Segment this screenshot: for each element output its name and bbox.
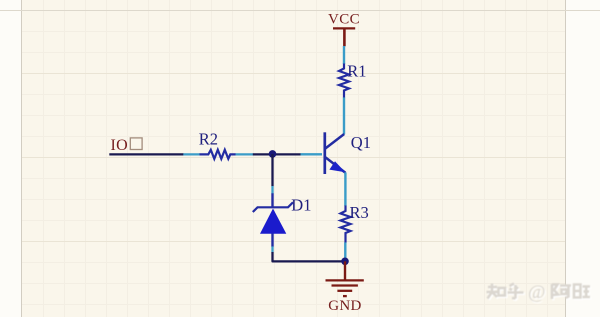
pin R2.1 bbox=[183, 153, 200, 155]
svg-text:D1: D1 bbox=[291, 195, 311, 214]
pin R1.1 bbox=[343, 46, 345, 64]
svg-text:R1: R1 bbox=[347, 62, 366, 81]
pin R3.2 bbox=[344, 242, 346, 258]
pin Q1 emitter bbox=[344, 172, 346, 205]
ground symbol GND bbox=[326, 261, 364, 296]
pin D1.2 bbox=[271, 246, 273, 252]
net label IO口 bbox=[111, 137, 143, 154]
resistor R2 bbox=[200, 150, 236, 159]
wire junction to D1 bbox=[271, 154, 273, 186]
svg-text:R2: R2 bbox=[199, 130, 218, 149]
svg-text:@: @ bbox=[528, 282, 546, 303]
watermark 知乎 @阿旺 bbox=[487, 282, 592, 304]
pin R2.2 bbox=[236, 153, 254, 155]
svg-text:GND: GND bbox=[328, 298, 361, 314]
pin D1.1 bbox=[271, 186, 273, 194]
svg-text:IO: IO bbox=[111, 137, 128, 154]
power symbol VCC stem bbox=[343, 28, 346, 46]
wire D1 to ground rail bbox=[273, 252, 346, 261]
svg-text:R3: R3 bbox=[350, 203, 369, 222]
junction node ground bbox=[341, 258, 349, 266]
pin Q1 base bbox=[301, 153, 323, 155]
pin R1.2 / Q1 collector pin bbox=[343, 97, 345, 134]
power symbol VCC bar bbox=[333, 27, 355, 29]
junction node base/D1 bbox=[269, 150, 277, 158]
transistor Q1 bbox=[325, 132, 346, 174]
zener diode D1 bbox=[253, 193, 293, 246]
svg-text:VCC: VCC bbox=[328, 12, 360, 28]
svg-text:Q1: Q1 bbox=[351, 133, 371, 152]
resistor R3 bbox=[341, 206, 351, 243]
wire R2 to Q1 base bbox=[253, 153, 301, 155]
wire IO to R2 bbox=[109, 153, 183, 155]
resistor R1 bbox=[339, 64, 349, 98]
